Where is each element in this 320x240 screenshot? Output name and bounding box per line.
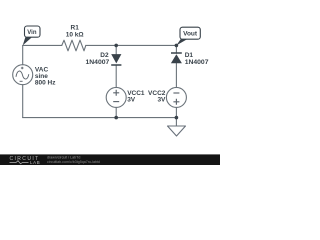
svg-text:drawn/circuit / LabTd: drawn/circuit / LabTd xyxy=(47,155,80,159)
svg-text:1N4007: 1N4007 xyxy=(185,59,209,66)
svg-text:LAB: LAB xyxy=(30,160,40,165)
svg-text:1N4007: 1N4007 xyxy=(85,59,109,66)
svg-text:Vout: Vout xyxy=(183,30,198,37)
svg-text:Vin: Vin xyxy=(27,30,37,36)
svg-text:3V: 3V xyxy=(157,96,166,103)
svg-text:800 Hz: 800 Hz xyxy=(35,79,56,86)
svg-text:10 kΩ: 10 kΩ xyxy=(66,31,84,38)
svg-text:3V: 3V xyxy=(127,96,136,103)
svg-text:circuitlab.com/c/b3tg5qa7ru-la: circuitlab.com/c/b3tg5qa7ru-labtd xyxy=(47,160,100,164)
